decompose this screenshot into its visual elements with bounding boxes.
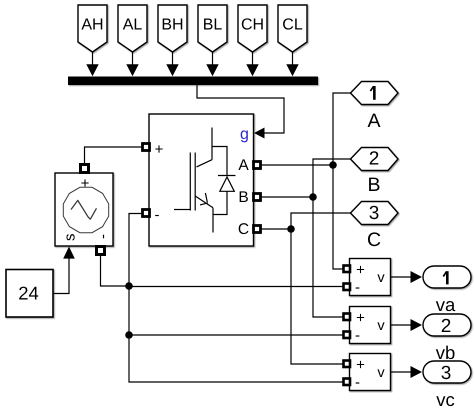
outport 1 bbox=[423, 266, 471, 288]
svg-text:B: B bbox=[238, 189, 248, 206]
goto tag 1 bbox=[351, 82, 399, 105]
wire BH to mux bbox=[166, 52, 178, 76]
outport 2 bbox=[423, 314, 471, 337]
svg-text:+: + bbox=[356, 357, 365, 374]
svg-text:C: C bbox=[367, 229, 381, 251]
svg-text:+: + bbox=[356, 262, 365, 279]
IGBT emitter lead bbox=[212, 208, 214, 233]
wire mux to gate input g bbox=[197, 85, 284, 139]
VM3 - port pin bbox=[344, 379, 351, 386]
IGBT emitter slant with arrow bbox=[195, 193, 213, 208]
wire AH to mux bbox=[86, 52, 98, 76]
svg-text:AH: AH bbox=[81, 17, 103, 34]
svg-text:v: v bbox=[377, 318, 385, 334]
svg-text:2: 2 bbox=[441, 316, 452, 337]
VM1 + port pin bbox=[344, 266, 351, 273]
svg-text:3: 3 bbox=[369, 203, 380, 224]
svg-text:BH: BH bbox=[161, 17, 183, 34]
voltage measurement VM2 bbox=[350, 307, 391, 344]
wire source + to bridge + bbox=[85, 147, 143, 165]
goto tag 3 bbox=[351, 202, 399, 225]
bridge A port pin bbox=[254, 162, 261, 169]
from tag CH bbox=[238, 5, 267, 52]
source s input arrowhead bbox=[63, 247, 75, 259]
diode D1 bbox=[218, 176, 236, 192]
junction negative rail to vm1 bbox=[125, 282, 133, 290]
wire node A to goto tag 1 and VM1 + bbox=[333, 93, 351, 269]
bridge + port pin bbox=[143, 144, 150, 151]
from tag CL bbox=[278, 5, 307, 52]
svg-text:g: g bbox=[240, 126, 249, 143]
svg-text:-: - bbox=[95, 234, 112, 239]
junction node A bbox=[329, 161, 337, 169]
VM2 + port pin bbox=[344, 314, 351, 321]
svg-text:A: A bbox=[367, 110, 380, 132]
svg-text:s: s bbox=[62, 233, 79, 241]
wire AL to mux bbox=[126, 52, 138, 76]
wire VM1 to outport 1 bbox=[391, 271, 423, 283]
IGBT collector lead bbox=[211, 128, 213, 160]
svg-text:-: - bbox=[355, 279, 360, 296]
junction node C bbox=[287, 225, 295, 233]
goto tag 2 bbox=[351, 148, 399, 171]
svg-text:-: - bbox=[355, 374, 360, 391]
wire VM3 to outport 3 bbox=[391, 366, 423, 378]
IGBT Q1 gate bars bbox=[190, 153, 195, 211]
wire node B to goto tag 2 and VM2 + bbox=[313, 159, 351, 317]
wire node C to goto tag 3 and VM3 + bbox=[291, 213, 351, 364]
VM3 + port pin bbox=[344, 361, 351, 368]
svg-text:+: + bbox=[81, 175, 90, 192]
voltage measurement VM1 bbox=[350, 259, 391, 296]
wire bridge C output bbox=[261, 228, 292, 230]
constant block 24 bbox=[6, 270, 53, 318]
mux bus bar bbox=[68, 77, 318, 86]
from tag AH bbox=[78, 5, 107, 52]
bridge C port pin bbox=[254, 226, 261, 233]
source - port pin bbox=[97, 247, 105, 255]
outport 3 bbox=[423, 361, 471, 384]
VM2 - port pin bbox=[344, 332, 351, 339]
diode anode wire bbox=[213, 191, 227, 214]
svg-text:3: 3 bbox=[441, 363, 452, 384]
wire CH to mux bbox=[246, 52, 258, 76]
svg-text:v: v bbox=[377, 270, 385, 286]
bridge - port pin bbox=[143, 210, 150, 217]
wire negative rail to VM2 - bbox=[129, 334, 344, 336]
wire VM2 to outport 2 bbox=[391, 319, 423, 331]
svg-text:C: C bbox=[238, 221, 249, 238]
svg-text:vc: vc bbox=[436, 389, 455, 409]
svg-text:-: - bbox=[355, 327, 360, 344]
wire BL to mux bbox=[206, 52, 218, 76]
wire source - to negative rail bbox=[101, 255, 130, 287]
svg-text:CH: CH bbox=[241, 17, 264, 34]
wire bridge B output bbox=[261, 196, 314, 198]
svg-text:2: 2 bbox=[369, 149, 380, 170]
negative rail wire bbox=[129, 214, 344, 383]
svg-text:A: A bbox=[238, 157, 249, 174]
svg-text:-: - bbox=[155, 207, 160, 224]
wire 24 to source s bbox=[53, 259, 69, 294]
universal bridge block U1 bbox=[149, 114, 254, 246]
svg-text:v: v bbox=[377, 365, 385, 381]
IGBT collector slant bbox=[197, 160, 213, 167]
controlled voltage source V1 bbox=[55, 173, 113, 246]
diode branch wire bbox=[212, 147, 227, 176]
svg-text:CL: CL bbox=[282, 17, 303, 34]
wire CL to mux bbox=[286, 52, 298, 76]
svg-text:+: + bbox=[155, 141, 164, 158]
from tag BL bbox=[198, 5, 227, 52]
from tag AL bbox=[118, 5, 147, 52]
wire negative rail to VM1 - bbox=[129, 286, 344, 288]
source circle bbox=[63, 187, 108, 232]
junction node B bbox=[309, 193, 317, 201]
VM1 - port pin bbox=[344, 284, 351, 291]
svg-text:BL: BL bbox=[203, 17, 223, 34]
IGBT gate lead bbox=[174, 209, 190, 211]
svg-text:+: + bbox=[356, 310, 365, 327]
svg-text:AL: AL bbox=[123, 17, 143, 34]
from tag BH bbox=[158, 5, 187, 52]
wire bridge A output bbox=[261, 164, 334, 166]
svg-text:vb: vb bbox=[436, 342, 456, 363]
bridge B port pin bbox=[254, 194, 261, 201]
svg-text:va: va bbox=[436, 294, 456, 315]
source + port pin bbox=[81, 165, 89, 173]
svg-text:24: 24 bbox=[18, 283, 39, 304]
svg-text:B: B bbox=[367, 174, 380, 196]
junction negative rail to vm2 bbox=[125, 331, 133, 339]
source sine wave bbox=[71, 200, 97, 219]
voltage measurement VM3 bbox=[350, 354, 391, 391]
